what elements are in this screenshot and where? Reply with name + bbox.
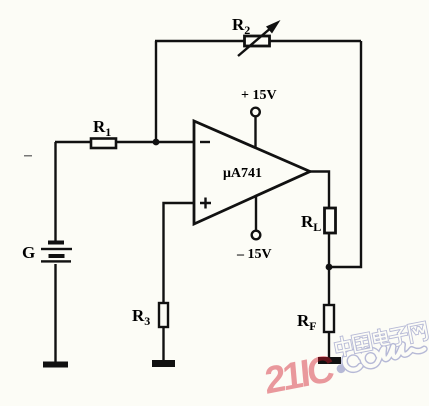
resistor R1 bbox=[91, 139, 116, 149]
wire: RL to junction bbox=[328, 233, 330, 267]
+15V terminal bbox=[251, 108, 260, 117]
-15V terminal bbox=[252, 231, 261, 240]
ground (RF) bbox=[318, 357, 341, 364]
wire: op-amp output bbox=[309, 172, 329, 209]
battery G bbox=[41, 241, 72, 263]
wire: left source vertical bbox=[54, 142, 56, 242]
wire: op-amp to -15V bbox=[255, 197, 257, 231]
svg-text:μA741: μA741 bbox=[223, 166, 262, 181]
node A junction dot bbox=[153, 139, 160, 146]
watermark 21IC.com 中国电子网 bbox=[257, 322, 429, 403]
svg-text:+ 15V: + 15V bbox=[241, 88, 277, 103]
op-amp U1 bbox=[194, 121, 310, 224]
wire: RF to ground bbox=[328, 332, 330, 357]
wire: +15V to op-amp bbox=[254, 117, 256, 149]
wire: R3 to ground bbox=[162, 327, 164, 360]
ground (R3) bbox=[152, 360, 175, 367]
wire: top feedback horizontal bbox=[155, 40, 361, 42]
node B junction dot bbox=[326, 264, 333, 271]
ground (left) bbox=[43, 362, 68, 368]
resistor RF bbox=[324, 305, 334, 332]
wire: battery to ground bbox=[54, 264, 56, 362]
resistor RL bbox=[325, 208, 336, 233]
scan artifact dash bbox=[24, 155, 32, 157]
wire: left feedback vertical bbox=[155, 41, 157, 142]
wire: right feedback vertical bbox=[331, 41, 361, 267]
svg-text:– 15V: – 15V bbox=[236, 247, 272, 262]
wire: junction to RF bbox=[328, 267, 330, 305]
wire: inverting input horizontal bbox=[55, 141, 194, 143]
resistor R2 (variable) bbox=[238, 20, 281, 56]
pin - (inverting) bbox=[200, 141, 210, 143]
resistor R3 bbox=[159, 303, 168, 327]
pin + (non-inverting) bbox=[200, 198, 211, 209]
svg-text:G: G bbox=[22, 243, 35, 262]
wire: non-inverting input bbox=[164, 203, 195, 303]
